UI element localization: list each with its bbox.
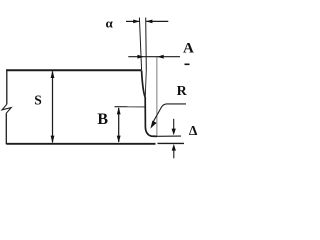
A arrow head right: [137, 55, 144, 59]
delta arrow head up: [172, 144, 176, 151]
svg-text:S: S: [34, 92, 42, 107]
bottom extension line for delta: [158, 142, 185, 144]
S arrow head up: [51, 70, 55, 78]
kerf line L1 (left slant line): [139, 18, 141, 71]
S dimension shaft: [52, 72, 54, 143]
plate left edge upper segment: [6, 69, 8, 104]
plate left edge lower segment: [5, 113, 7, 144]
B arrow head up: [117, 107, 121, 114]
break symbol (zigzag): [2, 104, 11, 113]
A arrow head left: [157, 55, 164, 59]
plate bottom edge: [6, 143, 155, 145]
R leader line: [153, 104, 186, 122]
kerf line L2 (right slant line): [145, 18, 148, 71]
delta arrow head down: [172, 129, 176, 136]
R leader arrow head: [150, 121, 156, 129]
L2 continuation below plate: [145, 70, 146, 96]
B arrow head down: [117, 136, 121, 143]
plate top edge: [6, 69, 141, 71]
B extension line: [115, 106, 146, 108]
B dimension shaft: [118, 108, 120, 142]
dash under A: [185, 64, 190, 66]
svg-text:α: α: [106, 16, 114, 31]
alpha dimension line right part: [146, 20, 168, 22]
alpha arrow head right: [133, 20, 140, 24]
S arrow head down: [51, 136, 55, 144]
svg-text:Δ: Δ: [189, 123, 198, 138]
svg-text:A: A: [183, 40, 194, 56]
alpha arrow head left: [146, 20, 153, 24]
foot extension line for delta: [157, 135, 181, 137]
A dimension line: [128, 56, 180, 58]
delta down-arrow shaft: [173, 119, 175, 130]
delta up-arrow shaft: [173, 151, 175, 159]
alpha dimension line left part: [126, 20, 139, 22]
svg-text:B: B: [97, 111, 108, 128]
svg-text:R: R: [177, 84, 188, 99]
vertical extension line at widest point: [156, 57, 158, 136]
cut face profile (thick): [142, 71, 157, 137]
